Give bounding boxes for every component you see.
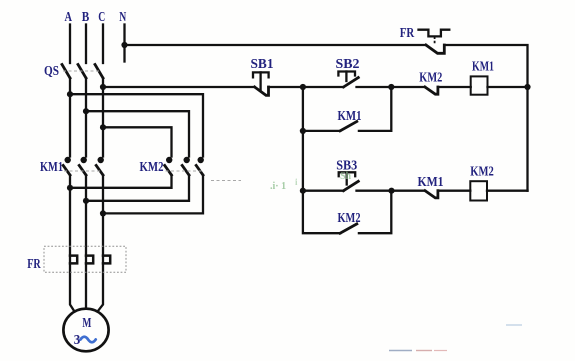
svg-text:M: M — [82, 316, 91, 331]
svg-text:SB1: SB1 — [251, 57, 274, 72]
svg-text:KM1: KM1 — [472, 59, 494, 74]
svg-text:SB2: SB2 — [336, 57, 360, 72]
svg-text:KM1: KM1 — [40, 160, 63, 175]
svg-text:KM2: KM2 — [140, 160, 164, 175]
svg-text:FR: FR — [27, 257, 41, 272]
svg-text:A: A — [65, 10, 73, 25]
svg-text:KM1: KM1 — [418, 175, 444, 190]
svg-text:.i· 1: .i· 1 — [270, 181, 286, 192]
svg-text:KM2: KM2 — [470, 165, 494, 180]
svg-text:QS: QS — [44, 64, 59, 79]
svg-text:Sh: Sh — [340, 171, 352, 182]
svg-text:C: C — [98, 10, 105, 25]
svg-text:FR: FR — [400, 26, 415, 41]
svg-text:B: B — [82, 10, 90, 25]
svg-text:N: N — [119, 10, 126, 25]
svg-text:KM2: KM2 — [419, 71, 442, 86]
svg-text:3: 3 — [74, 333, 81, 348]
